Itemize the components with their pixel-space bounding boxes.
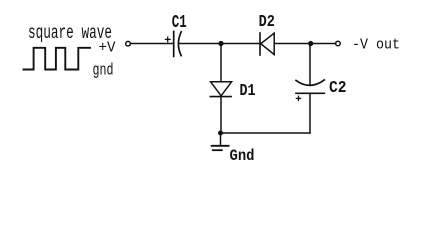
svg-text:C2: C2 (329, 79, 347, 98)
svg-text:gnd: gnd (93, 61, 114, 80)
svg-text:Gnd: Gnd (230, 147, 255, 165)
svg-text:+V: +V (99, 39, 116, 56)
svg-text:D2: D2 (259, 13, 275, 32)
svg-text:C1: C1 (172, 13, 187, 33)
svg-text:-V out: -V out (352, 36, 400, 53)
svg-text:D1: D1 (240, 82, 256, 101)
